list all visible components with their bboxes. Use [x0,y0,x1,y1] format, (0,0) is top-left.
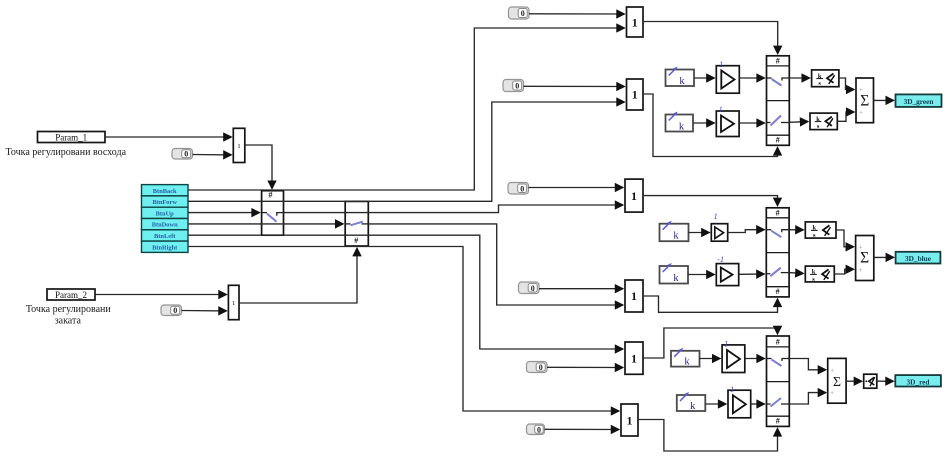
svg-text:k: k [684,357,690,368]
svg-text:1: 1 [232,300,235,307]
svg-text:Σ: Σ [833,375,841,390]
svg-text:0: 0 [515,82,519,91]
wire K_G1 to amp A_G1 [694,77,714,79]
constant 0 (slider) C_B1 [508,183,529,195]
sum S_B [856,236,874,281]
output tag 3D_red [895,375,941,386]
svg-text:+: + [830,390,834,397]
svg-text:1: 1 [631,289,637,303]
mux R1 [625,342,643,374]
switch SW1 [262,191,284,236]
svg-text:1: 1 [714,211,718,221]
svg-text:#: # [776,136,780,145]
svg-text:1: 1 [627,413,633,427]
svg-text:1: 1 [719,104,723,114]
svg-text:0: 0 [539,363,543,372]
wire S_R to comparator CMP_R [846,380,862,382]
svg-text:Param_2: Param_2 [55,290,87,300]
wire A_G2 to switch SWG [739,122,764,124]
wire SW1 out to mux B1 [284,205,623,213]
wire C_B2 to mux B2 [539,288,623,290]
button block BtnBack [142,185,189,196]
svg-text:BtnDown: BtnDown [152,222,178,229]
svg-text:#: # [776,57,780,66]
constant 0 (slider) C_P2 [161,305,182,316]
svg-text:0: 0 [531,284,535,293]
switch SW1 symbol [262,191,284,222]
gain K_B1 [660,221,689,242]
svg-text:0: 0 [520,184,524,193]
wire C_P2 to mux M2 [182,310,227,312]
saturation SAT_B2 [805,266,834,283]
svg-text:1: 1 [719,59,723,69]
svg-text:0: 0 [521,9,525,18]
wire C_P1 to mux M1 [193,154,232,156]
wire C_R1 to mux R1 [547,366,623,368]
constant 0 (slider) C_P1 [172,149,193,160]
mux R2 [621,404,638,436]
svg-text:3D_blue: 3D_blue [905,254,932,263]
wire R1 path to switch SWR top [643,328,778,358]
wire K_R2 to amp A_R2 [705,403,726,405]
constant 0 (slider) C_G1 [509,7,530,19]
gain K_R1 [671,348,700,368]
svg-text:Σ: Σ [860,250,869,267]
wire Param_1 to mux M1 [105,136,231,138]
switch SWG (green channel) [767,56,790,146]
wire SWB to SAT_B1 [789,229,803,231]
wire C_B1 to mux B1 [529,187,623,189]
svg-text:1: 1 [631,189,637,203]
wire C_G1 to mux G1 [529,13,624,15]
wire SWR sec2 to sum S_R [789,393,825,404]
wire K_R1 to amp A_R1 [700,358,721,360]
wire M2 to switch SW2 bottom [239,248,357,303]
svg-text:k: k [690,401,696,412]
output tag 3D_blue [896,252,941,264]
svg-text:BtnUp: BtnUp [156,210,175,217]
svg-text:k: k [673,231,679,242]
mux B2 [625,280,643,312]
amp A_G1 [716,59,739,93]
svg-text:k: k [679,121,685,132]
svg-text:+: + [859,267,863,274]
wire K_B2 to amp A_B2 [688,274,714,276]
svg-text:+: + [859,244,863,251]
wire A_B2 to switch SWB [739,273,765,275]
gain K_R2 [677,392,706,412]
saturation SAT_G2 [810,113,837,130]
svg-text:1: 1 [632,88,638,102]
output tag 3D_green [896,94,942,107]
switch SW2 symbol [345,222,368,245]
button block BtnUp [142,207,189,218]
wire BtnForw to mux G2 [188,102,624,201]
wire BtnDown to switch SW2 [188,223,343,225]
comparator CMP_R [864,374,877,388]
amp A_R2 [728,384,751,418]
mux G2 [627,79,644,110]
svg-text:BtnForw: BtnForw [152,199,177,206]
wire S_G to tag 3D_green [874,99,894,101]
svg-text:Точка регулировани восхода: Точка регулировани восхода [6,147,127,158]
wire SWR sec1 to sum S_R [789,359,825,370]
svg-text:1: 1 [632,15,638,29]
wire G1 to switch SWG top [643,22,778,54]
mux M1 [233,128,245,162]
wire BtnUp to switch SW1 [188,212,259,214]
svg-text:Точка регулировани: Точка регулировани [26,304,112,315]
svg-text:3D_green: 3D_green [904,97,934,106]
svg-text:#: # [776,209,780,218]
svg-text:Σ: Σ [860,93,869,110]
sum S_R [828,358,846,403]
wire C_R2 to mux R2 [545,428,619,430]
wire SWG to SAT_G2 [789,121,808,124]
constant 0 (slider) C_R2 [527,424,545,435]
wire SAT_B1 to sum S_B [836,230,854,247]
svg-text:k: k [673,273,679,284]
wire SAT_G2 to sum S_G [837,112,854,121]
mux G1 [627,7,644,37]
amp A_B1 [711,211,727,241]
svg-text:1: 1 [730,384,734,394]
svg-text:#: # [269,191,273,200]
saturation SAT_G1 [812,70,839,87]
gain K_G2 [666,112,694,133]
mux M2 [228,285,239,319]
button block BtnLeft [142,230,189,241]
svg-text:#: # [776,338,780,347]
button block BtnForw [142,196,189,207]
svg-text:1: 1 [631,352,637,366]
wire SAT_B2 to sum S_B [834,269,853,274]
svg-text:3D_red: 3D_red [907,377,930,386]
wire A_G1 to switch SWG [739,77,764,79]
wire SAT_G1 to sum S_G [839,78,854,90]
wire BtnLeft to mux R1 [188,235,623,349]
svg-text:+: + [830,367,834,374]
wire M1 to switch SW1 top [245,145,272,189]
wire CMP_R to tag 3D_red [877,380,894,382]
svg-text:k: k [679,76,685,87]
svg-text:0: 0 [537,425,541,434]
constant 0 (slider) C_B2 [519,282,540,294]
wire B1 to switch SWB top [643,196,778,206]
constant 0 (slider) C_R1 [527,362,548,373]
svg-text:заката: заката [55,316,82,327]
wire SW2 out to mux B2 [368,224,623,305]
wire SWG to SAT_G1 [789,77,809,79]
svg-text:0: 0 [184,150,188,159]
svg-text:#: # [354,236,358,245]
sum S_G [856,78,874,123]
amp A_R1 [722,339,745,373]
wire B2 to switch SWB bottom [643,296,778,312]
svg-text:+: + [859,109,863,116]
wire BtnBack to mux G1 [188,28,624,190]
constant 0 (slider) C_G2 [503,80,524,92]
constant block Param_1 [38,132,106,143]
svg-text:0: 0 [173,306,177,315]
wire K_G2 to amp A_G2 [693,122,714,124]
gain K_G1 [666,67,695,88]
saturation SAT_B1 [805,222,836,239]
svg-text:BtnLeft: BtnLeft [154,233,176,240]
amp A_G2 [716,104,739,137]
constant block Param_2 [47,289,95,300]
switch SWB (blue channel) [766,208,789,297]
wire SWB to SAT_B2 [789,272,803,275]
svg-text:Param_1: Param_1 [55,132,87,142]
mux B1 [625,179,643,212]
wire G2 to switch SWG bottom [643,94,778,157]
wire A_B1 to switch SWB [728,230,765,233]
svg-text:+: + [859,87,863,94]
switch SW2 [345,201,368,246]
svg-text:-1: -1 [717,254,724,264]
amp A_B2 [716,254,738,286]
wire K_B1 to amp A_B1 [689,232,710,234]
wire R2 to switch SWR bottom [638,420,778,452]
svg-text:BtnRight: BtnRight [152,244,178,251]
wire C_G2 to mux G2 [524,85,625,87]
svg-text:BtnBack: BtnBack [153,188,177,195]
wire Param_2 to mux M2 [95,294,226,296]
switch SWR (red channel) [767,336,790,426]
button block BtnRight [142,241,189,252]
svg-text:1: 1 [237,143,240,150]
svg-text:1: 1 [724,339,728,349]
gain K_B2 [660,263,689,284]
wire A_R1 to switch SWR [745,358,765,360]
svg-text:#: # [776,287,780,296]
button block BtnDown [142,219,189,230]
svg-text:#: # [776,417,780,426]
wire S_B to tag 3D_blue [874,256,894,258]
wire A_R2 to switch SWR [751,403,765,405]
wire BtnRight to mux R2 [188,247,619,412]
